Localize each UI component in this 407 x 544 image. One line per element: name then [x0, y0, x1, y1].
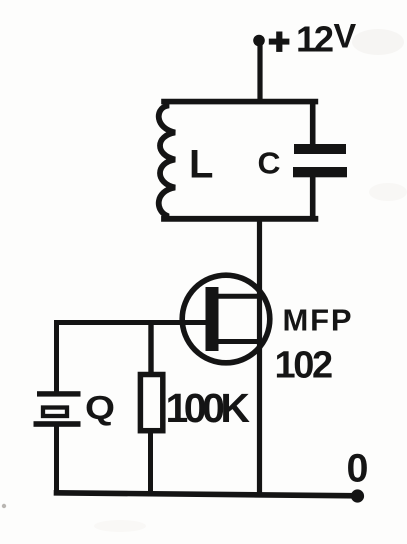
svg-text:MFP: MFP: [283, 303, 354, 338]
node output terminal dot: [351, 489, 364, 502]
svg-text:L: L: [189, 143, 213, 187]
inductor L (coil on tank left edge): [159, 99, 175, 222]
label C: [258, 146, 281, 181]
svg-text:C: C: [258, 146, 281, 181]
label +12 V: [269, 18, 357, 60]
svg-text:102: 102: [275, 345, 332, 387]
wire crystal bottom lead: [54, 427, 59, 496]
wire tank right edge upper segment: [310, 99, 316, 147]
svg-text:100K: 100K: [166, 385, 251, 431]
wire drain: tank bottom to transistor, through channel, source to rail: [257, 219, 262, 494]
crystal Q: [34, 391, 81, 427]
label 0 output: [347, 447, 369, 491]
label L: [189, 143, 213, 187]
svg-text:12: 12: [296, 19, 333, 60]
node +12V supply terminal dot: [253, 35, 265, 47]
wire tank top edge: [164, 99, 315, 105]
wire bottom rail: [57, 493, 357, 496]
capacitor C plates: [293, 144, 347, 177]
wire left vertical down to crystal: [54, 320, 59, 392]
resistor R1 100K: [140, 320, 162, 495]
label MFP 102: [275, 303, 354, 387]
wire tank right edge lower segment: [310, 174, 316, 222]
svg-text:Q: Q: [85, 390, 115, 427]
transistor Q1 MPF102 JFET: [182, 275, 270, 363]
svg-text:0: 0: [347, 447, 369, 491]
label Q: [85, 390, 115, 427]
wire supply down to tank top: [257, 40, 262, 102]
svg-text:V: V: [334, 18, 357, 56]
wire tank bottom edge: [164, 216, 315, 222]
label 100K: [166, 385, 251, 431]
wire gate to left: [57, 320, 207, 325]
